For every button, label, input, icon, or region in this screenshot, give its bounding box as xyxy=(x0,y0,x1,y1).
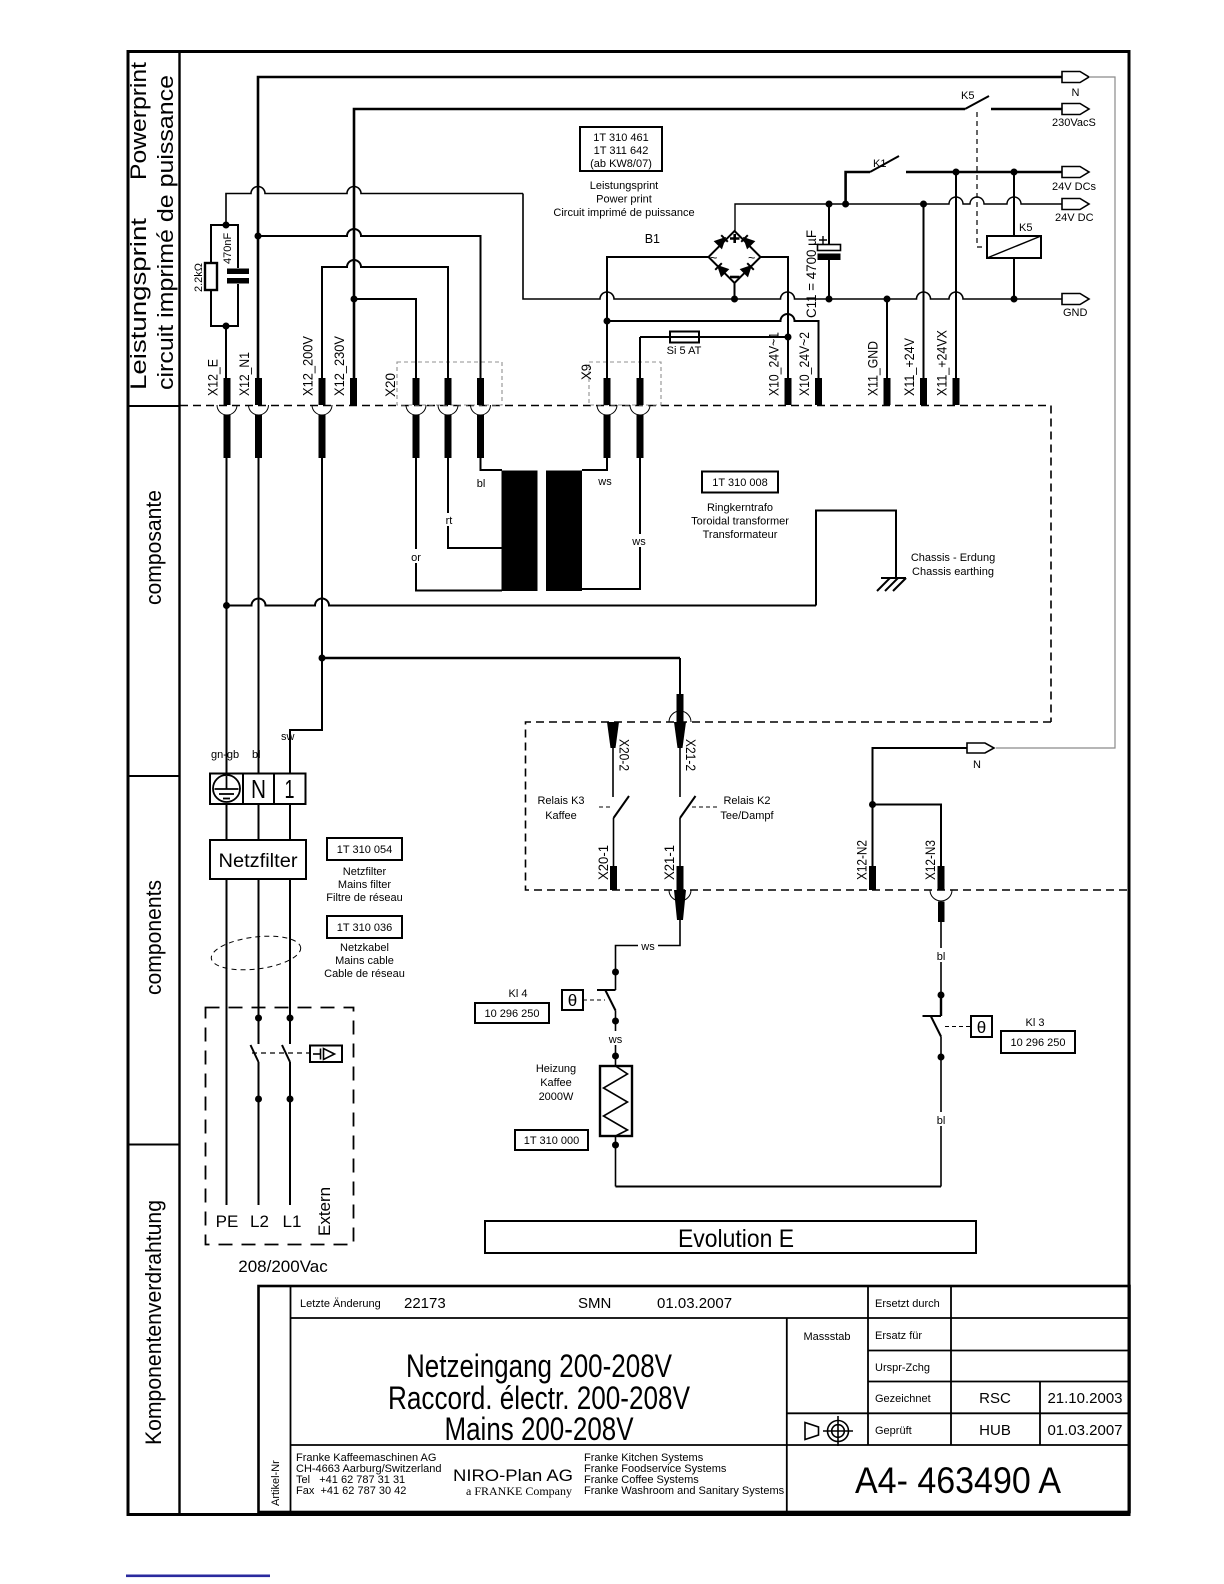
svg-text:10 296 250: 10 296 250 xyxy=(484,1008,539,1020)
node 24VDCs/K5-coil junction xyxy=(1011,169,1018,176)
wire N1 branch y=236 xyxy=(258,229,481,378)
svg-text:ws: ws xyxy=(631,536,646,548)
mains cable ellipse xyxy=(209,932,302,975)
svg-text:X11_+24V: X11_+24V xyxy=(902,338,917,396)
label rt xyxy=(442,513,456,527)
svg-text:Relais K3: Relais K3 xyxy=(537,795,584,807)
K5 linkage dashed xyxy=(977,112,987,247)
svg-text:Circuit imprimé de puissance: Circuit imprimé de puissance xyxy=(553,207,694,219)
thin N return wire xyxy=(996,77,1115,748)
PE terminal symbol xyxy=(213,775,240,802)
info box 1T310054 xyxy=(327,838,402,860)
wire X11_GND xyxy=(886,299,888,378)
node dot R/C bottom xyxy=(223,323,230,330)
svg-text:Kaffee: Kaffee xyxy=(545,810,577,822)
svg-text:bl: bl xyxy=(937,951,946,963)
svg-text:Letzte Änderung: Letzte Änderung xyxy=(300,1298,381,1310)
svg-text:GND: GND xyxy=(1063,307,1088,319)
svg-text:X12-N3: X12-N3 xyxy=(923,840,938,880)
svg-text:C11 = 4700 µF: C11 = 4700 µF xyxy=(804,230,819,318)
connector X12-N3 xyxy=(923,840,952,922)
svg-text:Power print: Power print xyxy=(596,194,652,206)
Evolution E xyxy=(485,1221,976,1253)
relay contact K3 xyxy=(614,796,630,818)
wire bl X20 to coil xyxy=(481,458,503,470)
svg-text:Mains 200-208V: Mains 200-208V xyxy=(445,1411,635,1447)
svg-text:X21-1: X21-1 xyxy=(662,845,677,880)
svg-text:Netzkabel: Netzkabel xyxy=(340,942,389,954)
svg-text:PE: PE xyxy=(216,1212,239,1231)
svg-text:Chassis earthing: Chassis earthing xyxy=(912,566,994,578)
node GND/K5-coil junction xyxy=(1011,296,1018,303)
svg-text:RSC: RSC xyxy=(979,1390,1011,1407)
svg-text:2000W: 2000W xyxy=(539,1091,574,1103)
svg-text:ws: ws xyxy=(640,941,655,953)
node 24VDC/X11_+24V junction xyxy=(920,201,927,208)
node 24VDC/C11 junction xyxy=(826,201,833,208)
svg-text:NIRO-Plan AG: NIRO-Plan AG xyxy=(453,1466,573,1485)
info box 1T310461 xyxy=(580,127,662,171)
svg-text:230VacS: 230VacS xyxy=(1052,117,1096,129)
svg-text:~: ~ xyxy=(710,251,717,265)
svg-text:Transformateur: Transformateur xyxy=(703,529,778,541)
svg-text:composante: composante xyxy=(141,490,166,605)
svg-text:bl: bl xyxy=(252,749,261,761)
switch linkage dashed xyxy=(252,1052,310,1054)
label or xyxy=(408,549,425,564)
connector X10_24V~2 stub xyxy=(797,332,822,405)
transformer T1 primary coil xyxy=(502,471,538,592)
svg-text:01.03.2007: 01.03.2007 xyxy=(1047,1422,1122,1439)
svg-text:Ersatz für: Ersatz für xyxy=(875,1330,922,1342)
svg-text:Si 5 AT: Si 5 AT xyxy=(667,345,702,357)
wire 230V branch to X20 y=299 xyxy=(354,299,416,378)
svg-text:Franke Washroom and Sanitary S: Franke Washroom and Sanitary Systems xyxy=(584,1485,785,1497)
wire heater return bus xyxy=(616,1186,942,1188)
svg-text:Filtre de réseau: Filtre de réseau xyxy=(326,892,402,904)
fuse Si 5 AT xyxy=(640,336,788,338)
chassis earthing wire xyxy=(816,511,896,606)
wire X12_200V down to sw xyxy=(290,458,322,774)
wires Netzfilter down xyxy=(226,879,228,1205)
svg-text:Komponentenverdrahtung: Komponentenverdrahtung xyxy=(141,1200,166,1445)
chassis earth symbol xyxy=(877,578,906,591)
svg-text:X11_GND: X11_GND xyxy=(866,341,881,396)
svg-text:470nF: 470nF xyxy=(222,233,234,264)
svg-text:1: 1 xyxy=(285,774,295,804)
svg-text:1T 310 461: 1T 310 461 xyxy=(593,132,648,144)
svg-text:Fax +41 62 787 30 42: Fax +41 62 787 30 42 xyxy=(296,1485,406,1497)
svg-text:L2: L2 xyxy=(250,1212,269,1231)
wire X12_E to R/C xyxy=(225,326,227,378)
B1 minus mark xyxy=(730,276,740,279)
connector X20 pin or xyxy=(406,378,426,458)
svg-text:HUB: HUB xyxy=(979,1422,1011,1439)
output arrow 230VacS xyxy=(1062,104,1089,115)
output arrow N xyxy=(1062,72,1089,83)
node sw bus junction xyxy=(319,655,326,662)
output arrow 24V DC xyxy=(1062,199,1089,210)
lamp box xyxy=(310,1046,342,1063)
svg-text:Ersetzt durch: Ersetzt durch xyxy=(875,1298,940,1310)
svg-text:X10_24V~1: X10_24V~1 xyxy=(767,332,782,396)
wire heater bottom xyxy=(615,1136,617,1187)
wire 230VacS rail y=109 xyxy=(354,109,965,378)
svg-text:X12_200V: X12_200V xyxy=(301,336,316,396)
svg-text:circuit imprimé de puissance: circuit imprimé de puissance xyxy=(153,75,178,390)
wire 24V DC rail y=204 with hops xyxy=(735,197,1062,231)
svg-text:K5: K5 xyxy=(1019,222,1032,234)
svg-text:SMN: SMN xyxy=(578,1295,611,1312)
svg-text:1T 310 036: 1T 310 036 xyxy=(337,922,392,934)
drawing frame xyxy=(128,52,1129,1515)
info box 10296250 Kl4 xyxy=(475,1003,549,1023)
svg-text:Chassis - Erdung: Chassis - Erdung xyxy=(911,552,995,564)
wire ws2 X9 to coil xyxy=(582,458,640,589)
wire 230VacS after K5 switch xyxy=(991,108,1062,111)
svg-text:A4- 463490 A: A4- 463490 A xyxy=(855,1460,1061,1501)
svg-text:21.10.2003: 21.10.2003 xyxy=(1047,1390,1122,1407)
projection symbol xyxy=(805,1416,853,1446)
bridge rectifier B1 xyxy=(607,231,788,378)
svg-text:Netzfilter: Netzfilter xyxy=(219,851,299,872)
sidebar divider 3 xyxy=(128,1144,180,1146)
svg-text:B1: B1 xyxy=(645,232,660,246)
node dot R/C top xyxy=(223,222,230,229)
svg-text:1T 310 008: 1T 310 008 xyxy=(712,477,767,489)
svg-text:Leistungsprint: Leistungsprint xyxy=(126,218,151,390)
node X9/X10_24V~2 branch junction xyxy=(604,318,611,325)
node GND/C11 junction xyxy=(826,296,833,303)
svg-text:Heizung: Heizung xyxy=(536,1063,576,1075)
Netzfilter box xyxy=(210,840,306,879)
svg-text:Leistungsprint: Leistungsprint xyxy=(590,180,659,192)
svg-text:bl: bl xyxy=(477,478,486,490)
node PE bus junction xyxy=(223,602,230,609)
svg-text:Extern: Extern xyxy=(315,1187,334,1236)
svg-text:θ: θ xyxy=(977,1018,986,1037)
thermal switch Kl4 xyxy=(597,989,616,991)
thermal switch Kl3 xyxy=(923,1015,942,1017)
svg-text:X12_N1: X12_N1 xyxy=(237,352,252,396)
svg-text:gn-gb: gn-gb xyxy=(211,749,239,761)
wire PE R/C to GND y=193.5 with hops xyxy=(226,187,523,225)
wire 24V DCs rail y=172 xyxy=(846,172,870,204)
capacitor 470nF xyxy=(226,225,249,326)
wire GND rail y=299 with hops xyxy=(523,194,1062,300)
svg-text:ws: ws xyxy=(597,476,612,488)
wire sw bus y=658 xyxy=(322,657,680,659)
switch contact L1 xyxy=(287,1015,294,1022)
connector X12_200V xyxy=(301,336,333,458)
B1 plus mark xyxy=(730,234,740,243)
wire ws1 X9 to coil xyxy=(582,458,607,470)
svg-text:~: ~ xyxy=(748,251,755,265)
wire X11_+24VX xyxy=(955,172,957,378)
Extern dashed box xyxy=(206,1008,354,1245)
svg-text:θ: θ xyxy=(568,991,577,1010)
connector X11_+24V stub xyxy=(902,338,927,405)
svg-text:(ab KW8/07): (ab KW8/07) xyxy=(590,158,652,170)
node fuse/X10_24V~1 junction xyxy=(785,334,792,341)
output arrow GND xyxy=(1062,294,1089,305)
connector X12-N2 stub xyxy=(855,840,877,890)
connector X20 pin rt xyxy=(438,378,458,458)
wire 200V branch y=267 xyxy=(322,260,448,378)
wire X12-N3 to Kl3 xyxy=(940,922,942,995)
svg-text:X11_+24VX: X11_+24VX xyxy=(935,330,950,396)
svg-text:Kl 4: Kl 4 xyxy=(509,988,528,1000)
svg-text:Cable de réseau: Cable de réseau xyxy=(324,968,405,980)
wire PE bus y=605 with hops xyxy=(227,599,817,606)
connector X21-2 xyxy=(669,658,698,797)
output arrow 24V DCs xyxy=(1062,167,1089,178)
switch contact L2 xyxy=(255,1015,262,1022)
switch K5 xyxy=(965,96,989,109)
theta box Kl4 xyxy=(562,990,583,1010)
svg-text:Ringkerntrafo: Ringkerntrafo xyxy=(707,502,773,514)
svg-text:components: components xyxy=(141,880,166,995)
wire X12_N1 down to N terminal xyxy=(258,458,260,774)
svg-text:1T 310 054: 1T 310 054 xyxy=(337,844,392,856)
theta box Kl3 xyxy=(971,1016,992,1037)
svg-text:01.03.2007: 01.03.2007 xyxy=(657,1295,732,1312)
svg-text:X12-N2: X12-N2 xyxy=(855,840,870,880)
svg-text:X9: X9 xyxy=(579,364,594,380)
dashed boundary: print board edge y=405 xyxy=(180,406,1051,723)
node GND/B1 junction xyxy=(731,296,738,303)
wire X21-1 to Kl4 xyxy=(616,920,681,990)
B1 diodes xyxy=(715,235,754,275)
wire K5 coil to GND rail xyxy=(1013,258,1015,299)
connector X12_230V stub xyxy=(332,336,357,405)
svg-text:K5: K5 xyxy=(961,90,974,102)
terminal block PE/N/1 xyxy=(210,774,306,805)
svg-text:24V DCs: 24V DCs xyxy=(1052,181,1097,193)
relay coil K5 xyxy=(987,236,1041,258)
wire X10_24V~2 branch y=321 xyxy=(607,314,819,378)
svg-text:Tee/Dampf: Tee/Dampf xyxy=(720,810,774,822)
svg-text:Netzfilter: Netzfilter xyxy=(343,866,387,878)
relay contact K2 xyxy=(680,796,696,818)
connector X20 pin bl xyxy=(471,378,491,458)
connector X9 pin ws1 xyxy=(597,378,617,458)
svg-text:N: N xyxy=(973,759,981,771)
wires terminal to Netzfilter xyxy=(226,804,228,840)
info box 10296250 Kl3 xyxy=(1001,1031,1075,1053)
connector X21-1 xyxy=(662,845,691,920)
sidebar divider 2 xyxy=(128,775,180,777)
svg-text:10 296 250: 10 296 250 xyxy=(1010,1037,1065,1049)
svg-text:X20-1: X20-1 xyxy=(596,845,611,880)
arrow N relais xyxy=(967,743,994,753)
switch K1 xyxy=(870,156,899,172)
node 230V/or-branch junction xyxy=(351,296,358,303)
svg-text:ws: ws xyxy=(608,1034,623,1046)
sidebar divider 1 xyxy=(128,405,180,407)
svg-text:Kl 3: Kl 3 xyxy=(1026,1017,1045,1029)
dashed box: relais board xyxy=(526,722,1130,890)
wire X12_E down to PE terminal xyxy=(226,458,228,774)
svg-text:Geprüft: Geprüft xyxy=(875,1425,912,1437)
svg-text:N: N xyxy=(1072,87,1080,99)
svg-text:Kaffee: Kaffee xyxy=(540,1077,572,1089)
connector X11_+24VX stub xyxy=(935,330,960,405)
svg-text:a FRANKE Company: a FRANKE Company xyxy=(466,1484,572,1498)
svg-text:X21-2: X21-2 xyxy=(683,739,698,771)
svg-text:bl: bl xyxy=(937,1115,946,1127)
wire K5 coil to 24VDCs rail xyxy=(1013,172,1015,236)
svg-text:208/200Vac: 208/200Vac xyxy=(238,1257,328,1276)
node GND/X11_GND junction xyxy=(884,296,891,303)
label ws2 xyxy=(630,534,648,548)
wire N rail y=77 xyxy=(258,77,1062,378)
connector X12_N1 xyxy=(237,352,269,458)
N branch in relais box xyxy=(873,748,968,866)
svg-text:K1: K1 xyxy=(873,158,886,170)
svg-text:sw: sw xyxy=(281,731,295,743)
svg-text:X12_E: X12_E xyxy=(206,359,221,396)
wire or X20 to coil xyxy=(416,458,502,591)
blue footer line xyxy=(126,1575,270,1578)
connector X20-2 stub xyxy=(607,722,632,797)
svg-text:Relais K2: Relais K2 xyxy=(723,795,770,807)
svg-text:X12_230V: X12_230V xyxy=(332,336,347,396)
svg-text:1T 310 000: 1T 310 000 xyxy=(524,1135,579,1147)
heater element xyxy=(600,1066,632,1136)
node 24VDC/K1 junction xyxy=(842,201,849,208)
info box 1T310000 xyxy=(515,1130,588,1150)
dashed box X9 xyxy=(589,362,661,405)
svg-text:N: N xyxy=(251,774,266,804)
svg-text:1T 311 642: 1T 311 642 xyxy=(594,145,649,157)
svg-text:22173: 22173 xyxy=(404,1295,446,1312)
svg-text:Powerprint: Powerprint xyxy=(126,62,151,180)
svg-text:X10_24V~2: X10_24V~2 xyxy=(797,332,812,396)
svg-text:2.2kΩ: 2.2kΩ xyxy=(193,263,205,292)
connector X10_24V~1 stub xyxy=(767,332,792,405)
capacitor C11 xyxy=(828,204,830,244)
svg-text:24V DC: 24V DC xyxy=(1055,212,1094,224)
info box 1T310008 xyxy=(702,472,778,493)
svg-text:Netzeingang 200-208V: Netzeingang 200-208V xyxy=(406,1348,673,1384)
connector X20-1 stub xyxy=(596,845,617,890)
wire fuse to X9 pin xyxy=(639,337,641,378)
node 24VDCs/X11_+24VX junction xyxy=(953,169,960,176)
svg-text:or: or xyxy=(411,552,421,564)
node N1 branch junction xyxy=(255,233,262,240)
resistor R 2.2k xyxy=(205,225,226,326)
connector X11_GND stub xyxy=(866,341,891,405)
dashed box X20 xyxy=(397,362,502,405)
connector X9 pin ws2 xyxy=(630,378,650,458)
info box 1T310036 xyxy=(327,916,402,938)
wire X11_+24V xyxy=(923,204,925,378)
svg-text:Artikel-Nr: Artikel-Nr xyxy=(270,1460,282,1506)
svg-text:rt: rt xyxy=(446,515,453,527)
connector X12_E xyxy=(206,359,238,458)
svg-text:Toroidal transformer: Toroidal transformer xyxy=(691,516,789,528)
svg-text:Urspr-Zchg: Urspr-Zchg xyxy=(875,1362,930,1374)
svg-text:Evolution E: Evolution E xyxy=(678,1225,794,1253)
transformer T1 secondary coil xyxy=(546,471,582,592)
svg-text:Gezeichnet: Gezeichnet xyxy=(875,1393,931,1405)
svg-text:L1: L1 xyxy=(283,1212,302,1231)
svg-text:Mains cable: Mains cable xyxy=(335,955,394,967)
svg-text:X20: X20 xyxy=(383,373,398,397)
svg-text:X20-2: X20-2 xyxy=(617,739,632,771)
wire rt X20 to coil xyxy=(448,458,502,548)
svg-text:Mains filter: Mains filter xyxy=(338,879,392,891)
svg-text:Massstab: Massstab xyxy=(803,1331,850,1343)
